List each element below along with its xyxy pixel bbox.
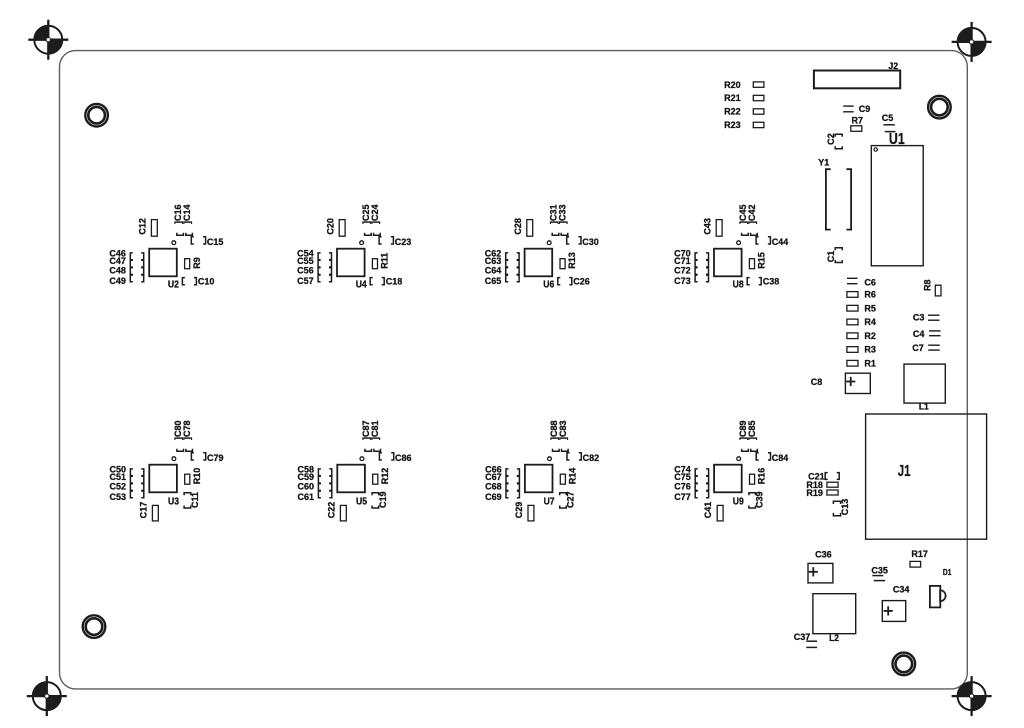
- capacitor C23: [379, 237, 411, 247]
- svg-text:U2: U2: [168, 279, 179, 290]
- svg-text:C23: C23: [395, 237, 412, 247]
- capacitor C86: [379, 453, 411, 463]
- capacitor C38: [747, 276, 779, 286]
- svg-text:Y1: Y1: [818, 157, 829, 167]
- resistor R16: [750, 468, 767, 485]
- resistor R3: [847, 344, 876, 354]
- svg-text:R8: R8: [922, 279, 932, 291]
- IC U7: [525, 457, 555, 507]
- capacitor C48: [109, 265, 143, 275]
- svg-text:C37: C37: [794, 632, 811, 642]
- svg-text:]C14: ]C14: [182, 204, 192, 224]
- svg-text:C68: C68: [485, 481, 502, 491]
- IC U9: [714, 457, 744, 507]
- capacitor C42: [747, 204, 758, 235]
- capacitor C88: [549, 420, 560, 451]
- svg-text:C56: C56: [297, 265, 314, 275]
- svg-text:R12: R12: [380, 468, 390, 485]
- resistor R4: [847, 317, 877, 327]
- svg-text:C53: C53: [109, 492, 126, 502]
- capacitor C67: [485, 472, 519, 483]
- svg-text:R23: R23: [724, 120, 741, 130]
- svg-text:C28: C28: [513, 218, 523, 235]
- fiducial top-left: [28, 20, 68, 60]
- diode D1: [930, 567, 952, 607]
- capacitor C1: [826, 248, 842, 263]
- svg-text:C17: C17: [138, 502, 148, 519]
- resistor R10: [185, 468, 202, 485]
- svg-text:C11: C11: [190, 492, 200, 508]
- capacitor C52: [109, 481, 143, 491]
- mounting hole bottom-left: [83, 615, 106, 638]
- capacitor C54: [297, 248, 331, 259]
- svg-text:R22: R22: [724, 106, 741, 116]
- capacitor C35: [871, 565, 888, 580]
- svg-text:R9: R9: [192, 257, 202, 269]
- capacitor C62: [485, 248, 519, 259]
- svg-text:U8: U8: [733, 279, 744, 290]
- IC U2: [149, 241, 179, 290]
- svg-text:C72: C72: [674, 265, 691, 275]
- capacitor C81: [370, 420, 381, 451]
- svg-text:R3: R3: [864, 344, 876, 354]
- capacitor C82: [567, 453, 599, 463]
- fiducial top-right: [952, 22, 992, 62]
- svg-text:C29: C29: [514, 502, 524, 519]
- capacitor C7: [912, 343, 940, 353]
- svg-text:C73: C73: [674, 276, 691, 286]
- svg-text:C6: C6: [864, 277, 876, 287]
- svg-text:C60: C60: [297, 481, 314, 491]
- resistor R5: [847, 303, 876, 313]
- svg-text:U1: U1: [889, 129, 905, 147]
- svg-text:C22: C22: [326, 502, 336, 519]
- capacitor C22: [340, 505, 346, 521]
- capacitor C49: [109, 275, 143, 286]
- capacitor C74: [674, 464, 708, 475]
- resistor R12: [373, 468, 390, 485]
- IC U3: [149, 457, 179, 507]
- svg-text:C13: C13: [840, 499, 850, 516]
- svg-text:C57: C57: [297, 276, 314, 286]
- mounting hole top-right: [928, 96, 951, 119]
- resistor R21: [724, 93, 764, 103]
- svg-text:]C83: ]C83: [558, 420, 568, 440]
- svg-text:U3: U3: [168, 496, 179, 507]
- svg-text:C48: C48: [109, 265, 126, 275]
- svg-text:]C24: ]C24: [370, 204, 380, 224]
- capacitor C37: [794, 632, 817, 648]
- svg-text:C9: C9: [859, 104, 871, 114]
- svg-text:C38: C38: [763, 276, 780, 286]
- svg-text:R14: R14: [567, 467, 577, 484]
- svg-text:C10: C10: [198, 276, 215, 286]
- svg-text:C7: C7: [912, 343, 924, 353]
- svg-text:R11: R11: [379, 253, 389, 269]
- svg-text:C49: C49: [109, 276, 126, 286]
- capacitor C9: [843, 104, 870, 114]
- capacitor C60: [297, 481, 331, 491]
- capacitor C39: [749, 491, 765, 508]
- resistor R6: [847, 289, 876, 299]
- capacitor C5: [882, 113, 896, 132]
- resistor R15: [749, 252, 766, 269]
- capacitor C44: [756, 237, 789, 247]
- svg-text:R21: R21: [724, 93, 741, 103]
- svg-text:C4: C4: [913, 329, 925, 339]
- capacitor C61: [297, 491, 331, 502]
- svg-text:R13: R13: [567, 252, 577, 269]
- label C41: [703, 502, 713, 519]
- IC U4: [337, 241, 368, 290]
- svg-text:C76: C76: [674, 481, 691, 491]
- svg-text:C8: C8: [811, 377, 823, 387]
- svg-text:C18: C18: [386, 276, 403, 286]
- capacitor C3: [913, 312, 940, 322]
- svg-text:U4: U4: [356, 279, 368, 290]
- capacitor C56: [297, 265, 331, 275]
- svg-text:L2: L2: [829, 633, 839, 643]
- label C28: [513, 218, 523, 235]
- svg-text:R4: R4: [864, 317, 876, 327]
- resistor R18: [806, 480, 838, 490]
- capacitor C17: [152, 505, 158, 521]
- svg-text:C44: C44: [772, 237, 789, 247]
- resistor R2: [847, 331, 876, 341]
- resistor R20: [724, 80, 764, 90]
- capacitor C13: [833, 499, 850, 516]
- capacitor C68: [485, 481, 519, 491]
- resistor R19: [806, 488, 838, 498]
- capacitor C24: [370, 204, 381, 236]
- resistor R9: [185, 257, 202, 269]
- svg-text:C19: C19: [378, 491, 388, 508]
- label C20: [325, 218, 335, 235]
- capacitor C27: [560, 491, 576, 508]
- capacitor C53: [109, 491, 143, 502]
- resistor R8: [922, 279, 941, 295]
- svg-text:C39: C39: [754, 491, 764, 508]
- capacitor C6: [847, 277, 876, 287]
- svg-text:U6: U6: [543, 279, 554, 290]
- capacitor C73: [674, 275, 708, 286]
- capacitor C11: [184, 492, 200, 508]
- inductor L1: [904, 364, 945, 412]
- capacitor C69: [485, 491, 519, 502]
- resistor R17: [910, 549, 928, 567]
- capacitor C83: [558, 420, 569, 451]
- capacitor C46: [109, 248, 143, 259]
- svg-text:C3: C3: [913, 312, 925, 322]
- svg-text:J1: J1: [898, 462, 911, 479]
- svg-text:U7: U7: [544, 496, 555, 507]
- svg-text:C52: C52: [109, 481, 126, 491]
- capacitor C66: [485, 464, 519, 475]
- resistor R22: [724, 106, 764, 116]
- capacitor C2: [826, 133, 842, 149]
- svg-text:]C85: ]C85: [747, 420, 757, 440]
- svg-text:C84: C84: [772, 453, 789, 463]
- capacitor C75: [674, 472, 708, 483]
- capacitor C71: [674, 256, 708, 267]
- capacitor C34: [882, 584, 910, 621]
- svg-text:R19: R19: [806, 488, 823, 498]
- label C29: [514, 502, 524, 519]
- svg-text:C36: C36: [815, 549, 832, 559]
- svg-text:R17: R17: [911, 549, 928, 559]
- resistor R14: [560, 467, 577, 484]
- capacitor C85: [747, 420, 758, 451]
- resistor R23: [724, 120, 764, 130]
- label C12: [137, 218, 147, 235]
- svg-text:C26: C26: [573, 276, 590, 286]
- capacitor C76: [674, 481, 708, 491]
- svg-text:C69: C69: [485, 492, 502, 502]
- svg-text:C20: C20: [325, 218, 335, 235]
- capacitor C14: [182, 204, 193, 236]
- capacitor C25: [361, 204, 372, 235]
- capacitor C50: [109, 464, 143, 475]
- fiducial bottom-right: [952, 676, 992, 716]
- capacitor C57: [297, 275, 331, 286]
- capacitor C41: [717, 505, 723, 521]
- capacitor C12: [151, 220, 157, 237]
- capacitor C4: [913, 329, 941, 339]
- capacitor C16: [173, 204, 184, 235]
- svg-text:R2: R2: [864, 331, 876, 341]
- resistor R7: [851, 115, 863, 131]
- svg-text:D1: D1: [943, 567, 952, 577]
- svg-text:U9: U9: [733, 496, 744, 507]
- connector J2: [814, 61, 900, 89]
- resistor R13: [560, 252, 577, 269]
- capacitor C72: [674, 265, 708, 275]
- svg-text:U5: U5: [356, 496, 367, 507]
- capacitor C45: [738, 204, 749, 235]
- fiducial bottom-left: [27, 676, 67, 716]
- capacitor C36: [808, 549, 833, 583]
- capacitor C58: [297, 464, 331, 475]
- svg-text:R16: R16: [756, 468, 766, 485]
- svg-text:C27: C27: [565, 491, 575, 508]
- capacitor C63: [485, 256, 519, 267]
- IC U1: [871, 129, 923, 265]
- capacitor C79: [191, 453, 223, 463]
- capacitor C43: [716, 220, 722, 237]
- capacitor C59: [297, 472, 331, 483]
- svg-text:C64: C64: [485, 265, 502, 275]
- capacitor C47: [109, 256, 143, 267]
- svg-text:R1: R1: [864, 358, 876, 368]
- IC U8: [714, 241, 744, 290]
- inductor L2: [813, 594, 856, 644]
- capacitor C10: [182, 276, 214, 286]
- capacitor C51: [109, 472, 143, 483]
- capacitor C65: [485, 275, 519, 286]
- capacitor C29: [528, 505, 534, 521]
- capacitor C30: [567, 237, 599, 247]
- label C17: [138, 502, 148, 519]
- svg-text:C86: C86: [395, 453, 412, 463]
- capacitor C26: [558, 276, 590, 286]
- capacitor C28: [527, 220, 533, 237]
- capacitor C20: [339, 220, 345, 237]
- svg-text:]C42: ]C42: [747, 204, 757, 224]
- svg-text:C61: C61: [297, 492, 314, 502]
- svg-text:C82: C82: [583, 453, 600, 463]
- capacitor C55: [297, 256, 331, 267]
- connector J1: [866, 414, 987, 539]
- resistor R1: [847, 358, 876, 368]
- svg-text:]C81: ]C81: [370, 420, 380, 440]
- svg-text:C41: C41: [703, 502, 713, 519]
- capacitor C78: [182, 420, 193, 451]
- capacitor C31: [548, 204, 559, 235]
- svg-text:R5: R5: [864, 303, 876, 313]
- svg-text:R6: R6: [864, 289, 876, 299]
- capacitor C84: [756, 453, 789, 463]
- capacitor C89: [738, 420, 749, 451]
- board outline: [60, 51, 968, 689]
- svg-text:]C33: ]C33: [557, 204, 567, 224]
- svg-text:R7: R7: [851, 115, 863, 125]
- capacitor C77: [674, 491, 708, 502]
- svg-text:R20: R20: [724, 80, 741, 90]
- capacitor C87: [361, 420, 372, 451]
- svg-text:C12: C12: [137, 218, 147, 235]
- capacitor C33: [557, 204, 568, 235]
- IC U6: [525, 241, 555, 290]
- capacitor C21: [808, 471, 839, 481]
- capacitor C19: [372, 491, 388, 508]
- svg-text:C65: C65: [485, 276, 502, 286]
- capacitor C64: [485, 265, 519, 275]
- label C22: [326, 502, 336, 519]
- capacitor C70: [674, 248, 708, 259]
- crystal Y1: [818, 157, 851, 229]
- svg-text:C79: C79: [207, 453, 224, 463]
- IC U5: [337, 457, 367, 507]
- svg-text:C15: C15: [207, 237, 224, 247]
- svg-text:J2: J2: [888, 61, 898, 71]
- resistor R11: [372, 253, 389, 269]
- svg-text:C77: C77: [674, 492, 691, 502]
- capacitor C80: [173, 420, 184, 451]
- svg-text:L1: L1: [919, 401, 929, 411]
- capacitor C8: [811, 373, 871, 393]
- svg-text:C5: C5: [882, 113, 894, 123]
- svg-text:C43: C43: [702, 218, 712, 235]
- svg-text:C35: C35: [871, 565, 888, 575]
- svg-text:R10: R10: [192, 468, 202, 485]
- mounting hole bottom-right: [893, 653, 916, 676]
- svg-text:C30: C30: [582, 237, 599, 247]
- label C43: [702, 218, 712, 235]
- capacitor C18: [370, 276, 402, 286]
- svg-text:R15: R15: [756, 252, 766, 269]
- svg-text:C34: C34: [893, 584, 910, 594]
- svg-text:]C78: ]C78: [182, 420, 192, 440]
- capacitor C15: [191, 237, 223, 247]
- mounting hole top-left: [85, 104, 108, 127]
